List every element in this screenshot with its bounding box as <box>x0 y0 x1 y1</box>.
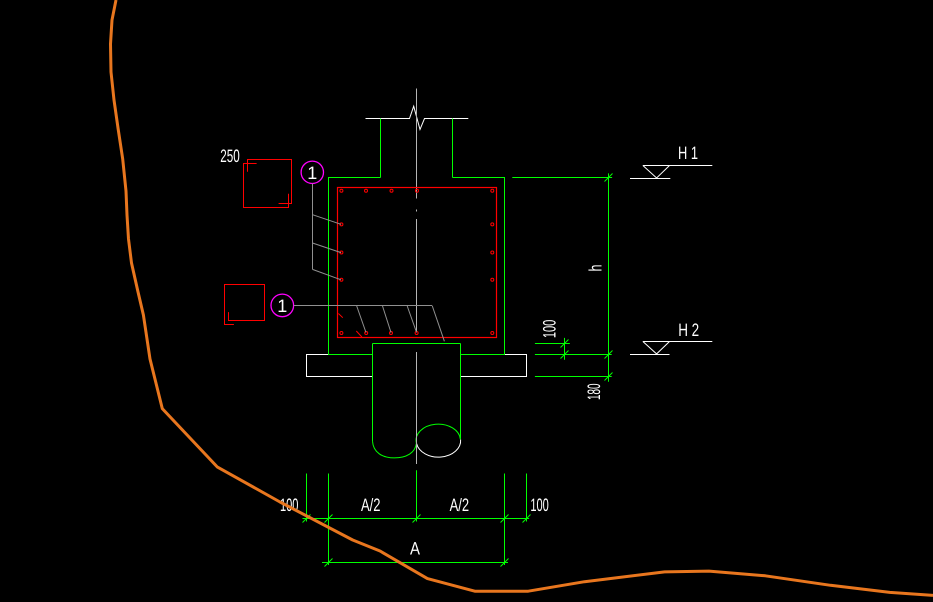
detail bubble 1 (lower) <box>271 294 294 317</box>
rebar cage (red box) <box>338 188 497 338</box>
bottom dimension line (A) <box>322 562 508 564</box>
bottom dimension ticks <box>303 515 531 567</box>
column break line with zigzag <box>366 106 469 129</box>
footing outline (green) <box>328 177 505 355</box>
svg-text:250: 250 <box>220 146 240 166</box>
rebar section dots, top row <box>340 189 494 192</box>
right dimension: extension line at footing top <box>512 177 612 179</box>
svg-text:A/2: A/2 <box>450 495 470 515</box>
pile bottom arc (green half-oval) <box>373 441 417 458</box>
detail bubble 1 (upper) <box>301 161 323 183</box>
pile body (black fill, green outline) <box>373 344 461 442</box>
svg-text:H 2: H 2 <box>678 320 699 340</box>
svg-text:100: 100 <box>540 320 560 339</box>
svg-text:1: 1 <box>307 163 317 183</box>
pile break circle: white lower arc <box>417 440 461 457</box>
column right side <box>452 119 454 178</box>
stirrup detail 250 (upper red lap squares) <box>244 160 292 208</box>
right dimension line h/180 <box>608 173 610 381</box>
rebar hook, lower-left <box>338 314 342 318</box>
column left side <box>380 119 382 178</box>
rebar section dots, bottom row <box>365 332 418 335</box>
embed dimension line 100 <box>564 338 566 360</box>
rebar section dots, right column <box>491 223 494 335</box>
svg-text:100: 100 <box>530 495 549 515</box>
leader ladder from upper bubble <box>313 184 342 280</box>
rebar section dots, left column <box>340 223 343 335</box>
dimension ticks (right side) <box>561 174 613 381</box>
rebar hook, bottom <box>356 331 362 337</box>
svg-text:A/2: A/2 <box>361 495 381 515</box>
bottom dimension extension lines <box>307 470 527 565</box>
right dimension: extension line at pile top <box>535 343 570 345</box>
svg-text:A: A <box>410 539 420 559</box>
svg-text:h: h <box>585 265 605 272</box>
right dimension: extension line at slab bottom <box>535 376 612 378</box>
svg-text:1: 1 <box>277 296 287 316</box>
bedding slab (white outline) <box>307 355 527 377</box>
column centerline <box>416 89 418 465</box>
stirrup detail (lower red lap square) <box>225 285 265 325</box>
svg-text:180: 180 <box>584 383 604 400</box>
level symbol H1 <box>630 166 712 179</box>
level symbol H2 <box>630 342 712 355</box>
right dimension: extension line at footing bottom <box>535 354 612 356</box>
pile break circle: green upper arc <box>416 424 460 443</box>
bottom dimension line (100/A2/A2/100) <box>303 518 530 520</box>
svg-text:H 1: H 1 <box>678 143 698 163</box>
leader from lower bubble with bar pointers <box>294 306 445 342</box>
